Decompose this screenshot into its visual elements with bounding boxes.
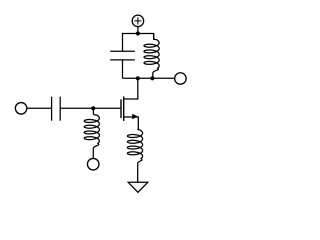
transistor Q1 channel bar — [123, 97, 125, 121]
port P2 (bias, bottom left) — [87, 158, 99, 170]
capacitor C1 right plate — [59, 97, 61, 121]
junction node D (L2 bottom tap) — [150, 76, 154, 80]
junction node A (gate / L1 tap) — [91, 106, 95, 110]
capacitor C2 (tank) top plate — [110, 50, 135, 52]
port P4 (output, right) — [175, 73, 187, 85]
transistor Q1 source arrow — [132, 114, 138, 120]
junction node C (drain tap) — [136, 76, 140, 80]
inductor L1 (gate bias choke) — [84, 108, 99, 158]
transistor Q1 drain lead — [124, 78, 138, 99]
inductor L2 (tank) — [144, 34, 159, 79]
tank top rail wire — [123, 34, 154, 52]
capacitor C1 (input coupling) left plate — [51, 97, 53, 121]
wire C1 to gate — [60, 107, 121, 109]
inductor L3 (source choke, to ground) — [127, 129, 142, 183]
capacitor C2 bottom plate — [110, 59, 135, 61]
wire C2 bottom to rail — [122, 60, 124, 78]
wire input port to C1 — [27, 107, 52, 109]
port P1 (input, left) — [15, 103, 27, 115]
ground — [128, 182, 148, 192]
transistor Q1 source lead — [124, 117, 139, 130]
junction node B (supply tap on rail) — [136, 31, 140, 35]
wire supply to rail — [137, 27, 139, 34]
port P3 (supply, circle with plus) — [132, 15, 144, 27]
tank bottom rail wire to output — [123, 77, 175, 79]
transistor Q1 gate bar — [120, 99, 122, 118]
supply plus sign — [134, 17, 141, 24]
